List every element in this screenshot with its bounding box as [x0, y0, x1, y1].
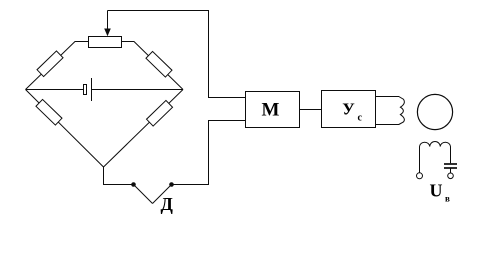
- resistor bottom-right arm: [147, 100, 173, 126]
- resistor top-left arm: [37, 51, 63, 77]
- terminal: right: [448, 173, 454, 179]
- battery: short plate electrode: [84, 85, 87, 95]
- wire: inductor right lead down to capacitor: [450, 147, 452, 164]
- wire: capacitor to right terminal: [450, 169, 452, 174]
- svg-text:М: М: [262, 100, 280, 121]
- motor (circle): [417, 94, 452, 129]
- resistor bottom-left arm: [36, 99, 62, 125]
- wire: bridge top-left arm diagonal: [26, 42, 89, 90]
- node: sensor left junction dot: [131, 182, 136, 187]
- battery: long thin electrode: [91, 78, 93, 101]
- wire: bridge bottom-right arm: [104, 90, 184, 168]
- capacitor plates: [444, 163, 457, 165]
- wire: bridge bottom-left arm: [26, 90, 104, 168]
- sensor contact V (right leg): [153, 185, 172, 204]
- svg-text:с: с: [358, 113, 363, 124]
- wire: wiper feedback to M box top input: [108, 11, 246, 98]
- wire: sensor to M box bottom input: [172, 121, 246, 185]
- wire: bridge bottom vertex down and right to sensor: [104, 167, 134, 185]
- motor control winding scallops: [399, 97, 405, 125]
- wire: inductor left lead down: [419, 147, 421, 173]
- svg-text:U: U: [430, 181, 443, 201]
- terminal: left: [417, 173, 423, 179]
- block Us (amplifier): [322, 91, 376, 128]
- wire: M to amplifier: [300, 109, 322, 111]
- sensor contact V (left leg): [134, 185, 153, 204]
- wire: bridge horizontal diagonal right of battery: [92, 89, 184, 91]
- wire: bridge top-right arm diagonal: [122, 42, 184, 90]
- potentiometer (reochord) box at bridge top: [89, 37, 122, 48]
- resistor top-right arm: [146, 51, 172, 77]
- node: sensor right junction dot: [169, 182, 174, 187]
- potentiometer wiper arrow: [107, 11, 109, 31]
- svg-text:в: в: [445, 194, 450, 204]
- excitation winding inductor: [420, 141, 451, 146]
- svg-text:У: У: [342, 100, 355, 119]
- wire: bridge horizontal diagonal left of battery: [26, 89, 84, 91]
- block M (measuring element): [246, 92, 300, 128]
- motor control winding leads: [376, 96, 400, 98]
- svg-text:Д: Д: [161, 194, 174, 214]
